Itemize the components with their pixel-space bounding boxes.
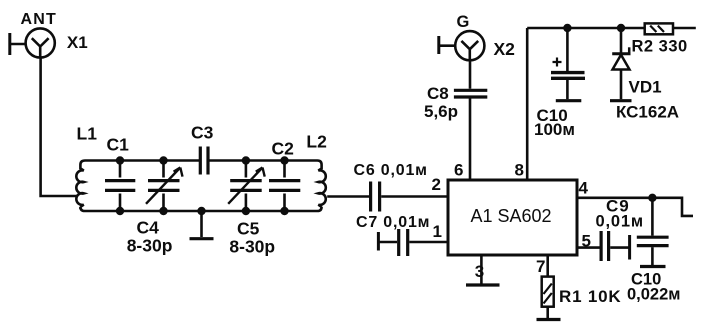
svg-text:8-30p: 8-30p (127, 236, 173, 256)
svg-text:КС162А: КС162А (616, 103, 679, 122)
node C2 top (280, 156, 288, 164)
variable capacitor C4 (146, 161, 183, 212)
svg-text:C2: C2 (272, 139, 295, 159)
svg-text:5,6p: 5,6p (424, 102, 458, 121)
terminal stub (C9) (628, 235, 631, 260)
op-amp / IC A1 SA602 (448, 180, 577, 255)
resistor R1 (542, 277, 554, 307)
svg-text:C1: C1 (107, 135, 130, 155)
node C1 bottom (116, 207, 124, 215)
wire pin 5 to C9 (577, 246, 600, 249)
svg-text:8: 8 (515, 161, 524, 180)
wire C9 to stub (610, 246, 628, 249)
inductor L2 (209, 161, 325, 207)
svg-text:0,022м: 0,022м (627, 286, 681, 304)
node C4 top (159, 156, 167, 164)
svg-text:R2 330: R2 330 (632, 38, 688, 56)
zener diode VD1 (610, 28, 632, 101)
wire C6 to pin 2 (381, 195, 449, 198)
capacitor C8 (454, 90, 487, 97)
wire pin 4 and output elbow (577, 198, 694, 216)
wire pin 8 (526, 28, 529, 180)
node C5 bottom (242, 207, 250, 215)
svg-text:2: 2 (432, 175, 441, 194)
antenna connector X1 (10, 28, 55, 57)
svg-text:C3: C3 (191, 123, 214, 143)
svg-text:ANT: ANT (21, 11, 57, 28)
capacitor C9 (601, 231, 609, 261)
svg-text:0,01м: 0,01м (596, 213, 644, 231)
node ground tap (197, 207, 205, 215)
svg-text:100м: 100м (534, 120, 575, 139)
svg-text:C8: C8 (427, 84, 449, 103)
node C4 bottom (159, 207, 167, 215)
node pin4/C10 (648, 194, 656, 202)
svg-text:8-30p: 8-30p (229, 237, 275, 257)
svg-text:X2: X2 (494, 39, 516, 59)
svg-text:6: 6 (454, 161, 463, 180)
node C5 top (242, 156, 250, 164)
capacitor C1 (105, 161, 135, 212)
svg-text:C6 0,01м: C6 0,01м (354, 162, 428, 179)
node VD1 supply (617, 24, 625, 32)
wire stub to C7 (378, 241, 397, 244)
wire L2 to C6 (327, 195, 369, 198)
electrolytic capacitor C10 100м (551, 28, 585, 101)
svg-text:X1: X1 (67, 33, 88, 52)
ground (tank) (190, 211, 214, 239)
svg-text:A1 SA602: A1 SA602 (470, 206, 551, 226)
capacitor C2 (269, 161, 300, 212)
svg-text:7: 7 (536, 257, 545, 276)
top supply wire (527, 27, 696, 30)
svg-text:VD1: VD1 (629, 78, 662, 97)
wire pin 3 to ground (466, 256, 500, 286)
capacitor C7 (399, 229, 408, 256)
resistor R2 (645, 23, 673, 34)
wire antenna to L1 tap (41, 58, 78, 196)
svg-text:C4: C4 (137, 218, 160, 238)
node C10 supply (563, 24, 571, 32)
ground (R1) (537, 307, 561, 320)
svg-text:3: 3 (475, 262, 484, 281)
svg-text:G: G (457, 13, 470, 31)
variable capacitor C5 (228, 161, 265, 212)
wire X2 to C8 (469, 60, 472, 88)
terminal stub for C7 (377, 232, 380, 251)
capacitor C6 (371, 182, 380, 212)
inductor L1 (76, 161, 321, 212)
capacitor C10 0,022м (637, 198, 669, 267)
svg-text:C7 0,01м: C7 0,01м (356, 214, 430, 231)
wire pin 7 (546, 256, 549, 277)
capacitor C3 (200, 147, 208, 175)
wire pin 6 (469, 98, 472, 179)
node C2 bottom (280, 207, 288, 215)
svg-text:1: 1 (433, 222, 442, 241)
svg-text:C5: C5 (237, 219, 260, 239)
connector X2 (439, 31, 485, 60)
wire C7 to pin 1 (409, 241, 449, 244)
node C1 top (116, 156, 124, 164)
svg-text:L1: L1 (77, 124, 98, 144)
svg-text:R1 10K: R1 10K (559, 287, 621, 306)
svg-text:5: 5 (582, 232, 591, 251)
svg-text:4: 4 (579, 179, 589, 198)
svg-text:L2: L2 (306, 132, 327, 152)
